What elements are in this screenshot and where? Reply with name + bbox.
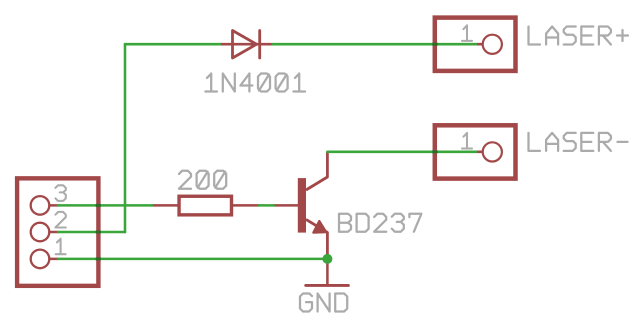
- connector JP1 pad circle pin 2: [31, 223, 50, 242]
- pad X1 name LASER+: [529, 27, 629, 45]
- wire net N$3 pin3 to R1: [58, 204, 152, 207]
- connector JP1 pin 1 stub: [50, 258, 59, 261]
- junction dot at Q1 emitter / GND node: [322, 254, 332, 264]
- resistor R1 right pin: [233, 204, 259, 207]
- connector JP1 frame: [17, 178, 98, 286]
- wire net N$2 top run to D1: [125, 43, 220, 46]
- diode D1 pin line: [220, 43, 273, 46]
- pad X2 name LASER-: [529, 133, 628, 151]
- resistor R1 body: [179, 196, 231, 215]
- wire-over-frame blend pin 3: [96, 204, 101, 207]
- pad X2 pin number 1: [462, 133, 472, 149]
- ground label GND: [300, 294, 347, 312]
- pad X1 circle: [483, 35, 502, 54]
- wire-over-frame blend pin 2: [96, 231, 101, 234]
- pad X2 pin stub: [476, 151, 482, 154]
- diode D1 cathode bar: [258, 31, 261, 59]
- connector JP1 pin 3 stub: [50, 204, 59, 207]
- ground pin: [326, 259, 329, 284]
- wire net LASER- Q1 collector to X2: [327, 151, 476, 154]
- transistor Q1 collector pin: [306, 152, 327, 190]
- pin number 1 label: [56, 239, 66, 255]
- transistor Q1 value BD237: [339, 214, 421, 232]
- wire net LASER+ D1 to X1: [273, 43, 476, 46]
- resistor R1 left pin: [152, 204, 178, 207]
- wire net N$4 R1 to Q1 base: [259, 204, 274, 207]
- wire-over-frame blend pin 1: [96, 257, 101, 260]
- ground bar: [306, 284, 349, 287]
- transistor Q1 base bar: [298, 178, 306, 233]
- transistor Q1 emitter pin: [306, 219, 327, 259]
- wire net N$2 vertical riser: [124, 44, 127, 232]
- pad X1 pin number 1: [462, 25, 472, 41]
- transistor Q1 emitter arrowhead: [313, 221, 326, 233]
- connector JP1 pad circle pin 3: [31, 196, 50, 215]
- pin number 2 label: [55, 212, 65, 228]
- pin number 3 label: [55, 185, 65, 201]
- wire-over-frame blend X1: [432, 43, 437, 46]
- pad X2 circle: [483, 142, 502, 161]
- diode D1 triangle: [233, 31, 257, 59]
- wire net GND pin1 to junction: [58, 258, 327, 261]
- wire net N$2 pin2 horizontal: [58, 231, 125, 234]
- diode D1 value 1N4001: [205, 74, 305, 92]
- resistor R1 value 200: [179, 171, 226, 189]
- pad X1 pin stub: [476, 43, 482, 46]
- wire-over-frame blend X2: [432, 150, 437, 153]
- pad X1 frame: [435, 18, 516, 71]
- pad X2 frame: [435, 125, 516, 178]
- connector JP1 pad circle pin 1: [31, 250, 50, 269]
- connector JP1 pin 2 stub: [50, 231, 59, 234]
- transistor Q1 base pin: [274, 204, 298, 207]
